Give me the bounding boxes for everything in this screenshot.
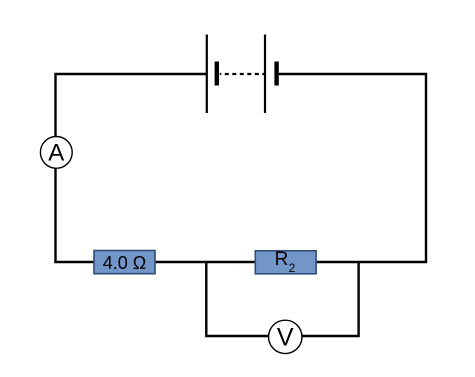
svg-text:V: V (277, 324, 294, 352)
svg-text:R: R (275, 249, 289, 270)
svg-text:4.0 Ω: 4.0 Ω (103, 253, 146, 273)
svg-text:A: A (48, 140, 64, 167)
svg-text:2: 2 (289, 261, 296, 275)
